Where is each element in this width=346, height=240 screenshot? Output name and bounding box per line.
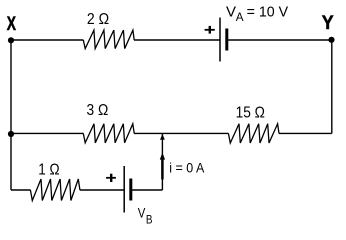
- current arrow i: [160, 152, 165, 179]
- wire bottom-left corner to R 1ohm: [11, 189, 31, 191]
- label VB: [138, 204, 153, 226]
- svg-text:V: V: [226, 3, 236, 20]
- svg-text:1 Ω: 1 Ω: [38, 162, 59, 179]
- node Y: [322, 12, 335, 43]
- wire top-left (X to R 2ohm): [11, 39, 83, 41]
- wire right vertical (Y down to middle branch): [331, 40, 333, 133]
- svg-text:= 10 V: = 10 V: [247, 3, 289, 20]
- wire R3 to R15: [134, 132, 229, 134]
- wire R1 to battery VB: [80, 189, 124, 191]
- svg-text:A: A: [236, 10, 244, 24]
- wire left vertical (X down to bottom branch): [10, 40, 12, 190]
- svg-text:2 Ω: 2 Ω: [87, 11, 109, 28]
- plus sign of VB: [106, 174, 116, 182]
- svg-text:B: B: [146, 213, 153, 227]
- wire R2 to battery VA: [134, 39, 220, 41]
- node junction left middle: [8, 131, 14, 137]
- plus sign of VA: [205, 26, 215, 34]
- battery VA positive plate (long thin): [219, 18, 221, 62]
- svg-text:15 Ω: 15 Ω: [236, 105, 265, 122]
- wire middle-left (to R 3ohm): [11, 132, 83, 134]
- svg-text:X: X: [7, 13, 17, 35]
- svg-text:Y: Y: [322, 12, 334, 34]
- battery VB negative plate (short thick): [129, 179, 132, 201]
- battery VA negative plate (short thick): [225, 29, 228, 51]
- node X: [7, 13, 17, 43]
- resistor 1ohm: [30, 179, 80, 201]
- resistor 15ohm: [228, 124, 279, 143]
- wire battery VA to Y: [227, 39, 332, 41]
- wire junction vertical (bottom branch up to middle branch): [161, 133, 163, 190]
- resistor 3ohm: [83, 124, 134, 143]
- resistor 2ohm: [83, 30, 134, 48]
- wire battery VB to junction vertical: [131, 189, 163, 191]
- svg-text:3 Ω: 3 Ω: [87, 102, 109, 119]
- arrowhead at junction with middle branch: [160, 134, 165, 140]
- battery VB positive plate (long thin): [123, 166, 125, 213]
- wire R15 to right vertical: [279, 132, 332, 134]
- svg-text:V: V: [138, 204, 146, 220]
- label VA = 10 V: [226, 3, 288, 23]
- svg-text:i = 0 A: i = 0 A: [169, 159, 205, 175]
